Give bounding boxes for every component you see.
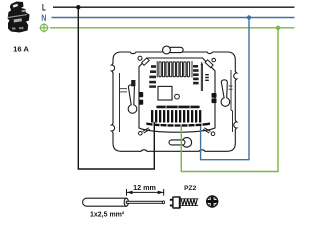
frame claw window left	[119, 73, 121, 132]
terminal comb	[151, 110, 201, 122]
wire L (black)	[53, 6, 295, 8]
tab top	[163, 46, 184, 54]
vent box	[157, 61, 192, 78]
wire black L drop to device	[78, 7, 154, 169]
screw hole bottom-left	[139, 132, 143, 136]
claw lever left	[128, 85, 137, 114]
node L junction	[76, 5, 80, 9]
tiny marks right chamfer	[205, 74, 209, 81]
screw hole top-left	[138, 56, 142, 60]
claw arm lines left	[120, 89, 128, 92]
label text smudge	[156, 106, 199, 109]
wire PE (green)	[50, 27, 295, 29]
screw side view	[170, 197, 199, 208]
pozidriv head	[207, 196, 218, 207]
chamfer ladder right	[193, 65, 199, 84]
svg-text:L: L	[42, 2, 46, 12]
wire green PE loop to device	[181, 28, 278, 172]
svg-text:16 A: 16 A	[13, 44, 29, 53]
svg-text:N: N	[41, 13, 46, 23]
keyhole slot bottom	[169, 138, 192, 148]
node N junction	[247, 15, 251, 19]
foot mark left	[143, 128, 151, 133]
chamfer ladder left	[149, 65, 156, 88]
screw hole bottom-right	[211, 132, 215, 136]
claw screw right	[212, 93, 217, 103]
device body	[139, 58, 215, 132]
diode mark right chamfer	[205, 60, 213, 68]
terminal lip	[146, 122, 210, 126]
earth symbol	[39, 23, 48, 32]
device mounting frame	[112, 52, 237, 151]
claw arm lines right	[229, 86, 233, 89]
claw lever right	[221, 80, 230, 107]
node PE junction	[276, 26, 280, 30]
screw hole top-right	[212, 58, 216, 62]
wire N (blue)	[52, 17, 295, 19]
svg-text:12 mm: 12 mm	[133, 183, 156, 192]
circuit breaker 16A icon	[7, 2, 29, 33]
foot mark right	[203, 128, 211, 133]
small circle	[175, 94, 180, 99]
fixing screw rod right	[201, 63, 202, 91]
relay box	[158, 86, 172, 100]
wire gauge: insulated wire	[83, 198, 165, 206]
claw screw left	[139, 92, 144, 105]
svg-text:1x2,5 mm²: 1x2,5 mm²	[90, 212, 125, 219]
dimension 12mm	[127, 189, 164, 196]
wire blue N loop to device	[201, 18, 249, 160]
frame claw window right	[231, 70, 233, 132]
svg-text:PZ2: PZ2	[184, 185, 196, 192]
claw tooth left	[131, 80, 135, 86]
diode mark left chamfer	[142, 58, 150, 65]
